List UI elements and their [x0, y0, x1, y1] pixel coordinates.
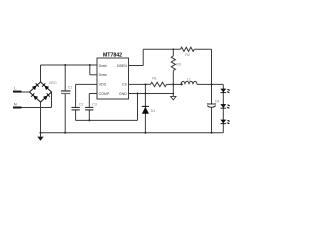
svg-text:L1: L1	[187, 77, 191, 81]
svg-text:GND: GND	[119, 92, 127, 96]
svg-text:C3: C3	[92, 103, 97, 107]
svg-text:COMP: COMP	[99, 92, 110, 96]
svg-text:Drain: Drain	[99, 73, 108, 77]
svg-text:CS: CS	[122, 83, 128, 87]
svg-text:R2: R2	[185, 53, 190, 57]
svg-text:D1: D1	[151, 109, 156, 113]
svg-text:R1: R1	[152, 76, 157, 80]
svg-text:DBEN: DBEN	[117, 64, 127, 68]
svg-text:C4: C4	[215, 100, 220, 104]
svg-text:VDD: VDD	[99, 83, 107, 87]
svg-text:Drain: Drain	[99, 64, 108, 68]
svg-text:BRG: BRG	[49, 81, 57, 85]
svg-text:C1: C1	[68, 86, 73, 90]
svg-text:N: N	[14, 102, 17, 107]
svg-text:MT7842: MT7842	[103, 52, 122, 58]
svg-text:R3: R3	[176, 63, 181, 67]
svg-text:C2: C2	[79, 103, 84, 107]
